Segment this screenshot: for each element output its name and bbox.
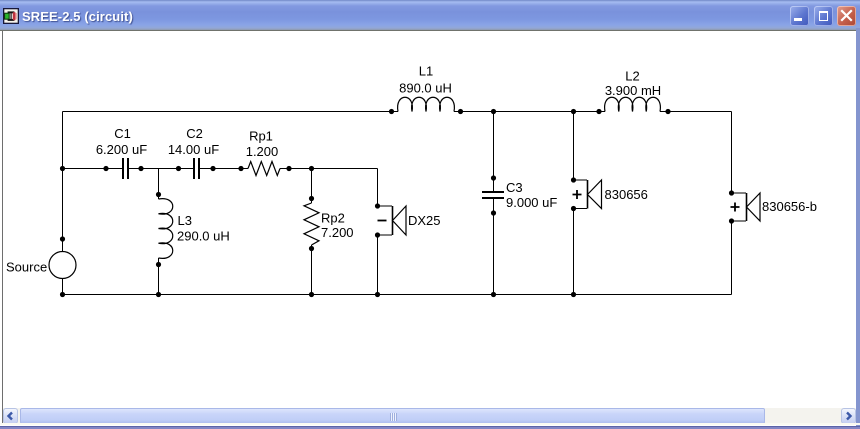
node L3 bottom [156,262,161,267]
node top rail C3 junction [491,109,496,114]
maximize button [814,6,833,26]
node L3 bottom rail [156,292,161,297]
wire DX25 branch upper [377,169,379,207]
node 830656 bottom rail [571,292,576,297]
node Rp2 bottom rail [309,292,314,297]
node DX25 bottom [375,232,380,237]
svg-text:7.200: 7.200 [321,225,354,240]
node L3 top [156,192,161,197]
wire DX25 branch lower [377,235,379,295]
node C3 bottom rail [491,292,496,297]
node Rp1 left [238,166,243,171]
node Rp2 junction [309,166,314,171]
wire bottom rail [63,294,732,296]
node Rp2 top [309,196,314,201]
node 830656-b top [729,190,734,195]
node top rail L1 right [458,109,463,114]
title bar [0,0,860,30]
speaker 830656-b [731,193,761,221]
wire top rail left section [63,111,399,113]
node Rp2 bottom [309,246,314,251]
minimize button [790,6,809,26]
svg-text:C3: C3 [506,180,523,195]
node C3 bottom [491,210,496,215]
node Rp1 right [286,166,291,171]
svg-text:14.00 uF: 14.00 uF [168,142,219,157]
svg-text:890.0 uH: 890.0 uH [399,81,452,96]
svg-text:L2: L2 [625,69,639,84]
node DX25 bottom rail [375,292,380,297]
wire L3 branch upper [158,169,160,200]
wire top rail middle section [454,111,605,113]
svg-text:3.900 mH: 3.900 mH [605,83,661,98]
resistor Rp1 [248,162,280,176]
title text [22,9,133,24]
wire middle rail segment 4 [280,168,378,170]
svg-text:L3: L3 [178,213,192,228]
capacitor C1 [123,158,128,179]
node top rail L2 right [665,109,670,114]
wire top rail right section [660,111,732,113]
capacitor C2 [194,158,199,179]
node C2 right [210,166,215,171]
node middle rail left [60,166,65,171]
svg-text:290.0 uH: 290.0 uH [177,229,230,244]
node C2 left [176,166,181,171]
node 830656 top [571,177,576,182]
node C1 right [138,166,143,171]
svg-text:L1: L1 [419,64,433,79]
svg-text:C2: C2 [186,126,203,141]
wire left vertical lower [62,279,64,295]
speaker 830656 [573,180,602,209]
wire C3 branch upper [493,112,495,192]
resistor Rp2 [304,203,319,245]
wire Rp2 branch upper [311,169,313,204]
wire Rp2 branch lower [311,245,313,295]
node DX25 top [375,203,380,208]
node C3 top [491,175,496,180]
node top rail L2 left [596,109,601,114]
inductor L2 [605,97,661,111]
node 830656 bottom [571,206,576,211]
wire C3 branch lower [493,199,495,295]
svg-text:9.000 uF: 9.000 uF [506,195,557,210]
capacitor C3 [482,192,504,198]
node top rail L1 left [389,109,394,114]
svg-text:Source: Source [6,260,47,275]
node 830656-b bottom [729,218,734,223]
close button [837,6,856,26]
node C1 left [103,166,108,171]
wire L3 branch lower [158,258,160,295]
svg-text:C1: C1 [114,126,131,141]
inductor L3 [159,199,173,259]
wire middle rail segment 3 [200,168,248,170]
speaker DX25 [378,206,407,235]
inductor L1 [398,97,455,111]
svg-text:1.200: 1.200 [246,144,279,159]
wire middle rail segment 1 [63,168,123,170]
wire right column upper [731,112,733,194]
svg-text:830656-b: 830656-b [762,199,817,214]
node source bottom [60,292,65,297]
wire middle rail segment 2 [129,168,193,170]
wire speaker 830656 branch upper [573,112,575,181]
svg-text:Rp2: Rp2 [321,211,345,226]
wire left vertical upper [62,112,64,252]
svg-text:6.200 uF: 6.200 uF [96,142,147,157]
wire speaker 830656 branch lower [573,209,575,295]
frame lines [0,30,857,31]
node top rail 830656 junction [571,109,576,114]
app icon [3,8,19,24]
wire right column lower [731,221,733,295]
svg-text:Rp1: Rp1 [249,129,273,144]
node source top [60,236,65,241]
svg-text:DX25: DX25 [408,213,441,228]
source V1 [49,252,76,279]
horizontal scrollbar [3,408,856,425]
svg-text:830656: 830656 [605,187,648,202]
